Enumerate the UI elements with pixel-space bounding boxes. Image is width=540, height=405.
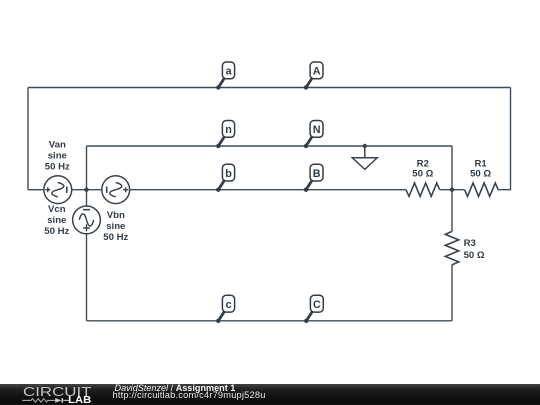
svg-text:LAB: LAB [68, 395, 91, 405]
wire phase b rail [130, 189, 406, 191]
wire left vertical [27, 88, 29, 190]
wire phase c bottom rail [87, 320, 453, 322]
svg-text:sine: sine [48, 151, 67, 162]
footer credit line [115, 383, 236, 393]
svg-text:Vbn: Vbn [107, 210, 125, 221]
svg-text:50 Hz: 50 Hz [103, 232, 128, 243]
svg-text:n: n [225, 124, 232, 136]
footer bar [0, 384, 540, 405]
node flag a [216, 62, 234, 90]
footer url line [113, 390, 266, 400]
svg-text:50 Hz: 50 Hz [45, 162, 70, 173]
voltage source V1 Van [44, 176, 72, 204]
svg-text:B: B [313, 168, 321, 180]
node flag A [304, 62, 323, 90]
node flag n [216, 121, 234, 149]
junction node Van/Vbn/Vcn [84, 188, 88, 192]
node flag C [304, 295, 323, 323]
junction node ground tap [363, 144, 367, 148]
node flag c [216, 295, 234, 323]
svg-text:C: C [313, 299, 321, 311]
svg-text:N: N [313, 124, 321, 136]
wire bottom rail up to R3 [451, 265, 453, 321]
resistor R2 [406, 183, 440, 196]
svg-text:sine: sine [47, 215, 66, 226]
wire R2 to R1 [440, 189, 465, 191]
svg-text:a: a [226, 66, 233, 78]
svg-text:50 Ω: 50 Ω [464, 250, 485, 261]
node flag B [304, 164, 323, 192]
resistor R3 [445, 231, 458, 265]
resistor R1 [465, 183, 499, 196]
node flag N [304, 121, 323, 149]
svg-text:Vcn: Vcn [48, 204, 66, 215]
ground [352, 146, 377, 169]
voltage source V2 Vcn [73, 206, 101, 234]
svg-text:50 Ω: 50 Ω [470, 168, 491, 179]
CircuitLab logo [0, 380, 100, 405]
svg-text:R3: R3 [464, 238, 476, 249]
wire Vcn top terminal [86, 190, 88, 206]
svg-text:50 Hz: 50 Hz [44, 226, 69, 237]
wire Van left terminal [28, 189, 44, 191]
node flag b [216, 164, 234, 192]
svg-text:sine: sine [106, 221, 125, 232]
wire junction between Van and Vbn [72, 189, 102, 191]
svg-text:50 Ω: 50 Ω [412, 168, 433, 179]
wire R1 to right vertical up to top rail [498, 88, 510, 190]
wire Vcn bottom down to bottom rail [86, 234, 88, 321]
svg-text:c: c [226, 299, 232, 311]
wire neutral drop to R1/R2 junction [451, 146, 453, 190]
wire top rail (phase a) [28, 87, 511, 89]
wire neutral n rail [87, 145, 453, 147]
voltage source V3 Vbn [102, 176, 130, 204]
wire junction up to neutral rail [86, 146, 88, 190]
junction node R1/R2/R3 [450, 188, 454, 192]
svg-text:b: b [225, 168, 232, 180]
wire R3 top to junction [451, 190, 453, 232]
svg-text:Van: Van [49, 140, 66, 151]
svg-text:A: A [313, 66, 321, 78]
